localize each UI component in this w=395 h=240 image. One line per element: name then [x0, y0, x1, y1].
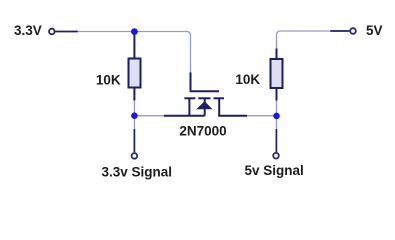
svg-text:5V: 5V [366, 23, 383, 38]
svg-text:5v Signal: 5v Signal [245, 163, 304, 178]
svg-text:10K: 10K [235, 72, 260, 87]
svg-text:3.3V: 3.3V [14, 23, 42, 38]
svg-text:2N7000: 2N7000 [179, 124, 226, 139]
svg-text:10K: 10K [96, 73, 121, 88]
svg-text:3.3v Signal: 3.3v Signal [102, 165, 173, 180]
